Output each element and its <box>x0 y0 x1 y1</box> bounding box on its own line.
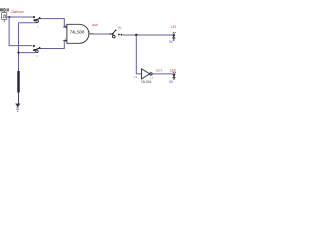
node J3 junction dot <box>135 34 137 36</box>
LED D1 symbol <box>172 32 175 41</box>
wire S3 to node J3 and LED1 <box>122 34 173 36</box>
signal source U0 label text <box>1 8 9 11</box>
svg-text:LED: LED <box>170 69 176 73</box>
svg-text:74LS08: 74LS08 <box>70 29 85 34</box>
switch S1 (input A select) <box>33 16 41 29</box>
wire S1 output to AND input 1 <box>41 19 67 27</box>
svg-text:Clarkson: Clarkson <box>11 10 24 14</box>
switch S2 (input B select) <box>33 45 41 59</box>
svg-text:AND: AND <box>91 23 99 27</box>
wire W6: J2 to switch S2 contact <box>19 52 36 54</box>
node J2 junction dot <box>17 52 19 54</box>
switch S3 (output enable) <box>109 26 122 38</box>
LED D2 symbol <box>172 72 175 80</box>
signal source U0 box <box>2 13 9 23</box>
wire NOT output to LED2 <box>152 73 172 75</box>
wire rail R1: J1 down then right to switch S2 upper throw <box>9 17 32 46</box>
svg-text:LED: LED <box>171 25 176 29</box>
wire AND output to switch S3 <box>94 33 111 35</box>
svg-text:B1: B1 <box>118 26 122 30</box>
ground rail R2 top: corner down to ground <box>18 23 20 104</box>
wire W5: R2 corner to switch S1 pivot <box>19 22 37 24</box>
wire S2 output to AND input 2 <box>41 41 67 49</box>
NOT gate U2 74LS04 <box>134 69 154 84</box>
node J1 junction dot <box>8 16 10 18</box>
AND gate U1 74LS08 <box>63 23 94 44</box>
wire W1: source to switch S1 upper throw <box>8 16 33 18</box>
svg-text:13: 13 <box>134 75 138 79</box>
svg-text:74LS04: 74LS04 <box>141 80 152 84</box>
wire J3 down to NOT gate input <box>136 35 141 74</box>
ground symbol GND <box>16 93 20 112</box>
selected thick wire segment <box>17 71 19 93</box>
